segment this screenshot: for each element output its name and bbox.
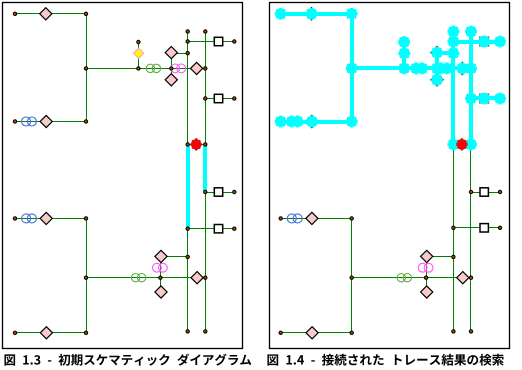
node P2 traced red marker left [448,139,460,151]
wire P1 net-top row1 horizontal [15,13,87,15]
component P2 terminal square 1 [480,37,488,45]
wire P2 main horizontal bus lower [352,277,471,279]
node P2 traced green coil a [410,63,422,75]
node P2 traced yellow node [398,47,410,59]
wire P2 vertical trunk x86 lower [351,219,353,333]
component P1 green coil pair upper bus [146,64,160,72]
component P1 blue coil pair upper [22,117,37,126]
wire P2 row with blue inductor lower [281,218,352,220]
component P2 yellow diamond node [399,48,409,58]
node P1 column B bottom endpoint [204,330,207,333]
component P2 green coil pair lower bus [397,274,411,282]
component P2 diamond blue row lower [306,212,318,224]
node P2 traced yellow stub junction [398,63,410,75]
wire P2 highlighted trace terminal row1 [453,40,500,44]
wire P2 row with blue inductor upper [281,121,352,123]
node P2 column B top endpoint [469,30,472,33]
node P2 traced terminal row2 junction [465,93,477,105]
node P2 traced blue coil a [286,116,298,128]
wire P2 highlighted trace trunk [350,14,354,122]
node P2 traced cluster1 upper diamond [431,47,443,59]
node P2 column A bottom endpoint [452,330,455,333]
node P2 column B bottom endpoint [469,330,472,333]
wire P2 bottom row horizontal [281,332,352,334]
panel 2 border [270,3,510,349]
component P1 terminal square 1 [214,37,222,45]
node P2 traced diamond upper bus [456,63,468,75]
component P1 blue coil pair lower [22,214,37,223]
component P2 diamond cluster2 upper [421,250,433,262]
wire P1 highlighted trace column B [203,146,207,192]
node P2 endpoint blue row lower [279,217,282,220]
junction P2 terminal row4 / column A [452,226,455,229]
wire P2 cluster1 branch to column A [437,53,454,55]
junction P1 top row corner [84,12,87,15]
component P1 diamond cluster2 upper [155,250,167,262]
node P2 traced cluster1 junction [431,63,443,75]
wire P2 column B vertical [470,32,472,332]
node P2 terminal row4 endpoint [498,226,501,229]
wire P1 red-marker cross link [188,144,206,146]
node P2 endpoint top row left [279,12,282,15]
wire P1 column B vertical [205,32,207,332]
junction P1 cluster1 stub / bus [170,67,173,70]
component P2 diamond on upper bus [456,62,468,74]
junction P1 terminal row1 / column A [186,40,189,43]
component P2 diamond blue row upper [306,115,318,127]
node P2 traced corner top row [346,8,358,20]
wire P1 row with blue inductor upper [15,121,87,123]
wire P1 terminal row 2 [206,98,235,100]
junction P2 lower bus end / column B [469,276,472,279]
node P1 current-location red marker [191,139,202,150]
wire P1 cluster1 vertical stub [171,53,173,80]
junction P2 trunk / lower bus [350,276,353,279]
node P2 traced green coil b [416,63,428,75]
component P2 diamond on lower bus [457,272,469,284]
node P1 terminal row1 endpoint [233,40,236,43]
node P1 terminal row4 endpoint [233,227,236,230]
component P1 diamond cluster1 upper [165,47,177,59]
component P1 yellow diamond node [134,48,144,58]
component P2 diamond pin top row [305,8,317,20]
junction P2 terminal row1 / column A [452,40,455,43]
wire P2 main horizontal bus upper [352,68,471,70]
component P1 diamond bottom row [40,327,52,339]
wire P2 highlighted trace cluster1 stub [435,53,439,80]
junction P1 cluster1 branch / column A [186,52,189,55]
component P1 diamond blue row upper [40,115,52,127]
caption figure 1.3 label [4,354,251,366]
wire P2 highlighted trace row1 [281,12,352,16]
component P1 terminal square 2 [214,94,222,102]
wire P2 terminal row 2 [471,98,501,100]
wire P2 highlighted trace yellow stub [402,42,406,68]
junction P2 terminal row2 / column B [469,97,472,100]
junction P2 blue row upper corner [350,120,353,123]
node P2 traced terminal row1 square [478,36,490,48]
component P2 diamond cluster1 upper [431,47,443,59]
wire P2 terminal row 3 [471,192,501,194]
junction P2 bottom row corner [350,331,353,334]
component P1 diamond pin top row [40,8,52,20]
wire P1 row with blue inductor lower [15,218,87,220]
node P1 column B top endpoint [204,30,207,33]
node P1 endpoint bottom row [13,331,16,334]
junction P1 terminal row2 / column B [204,97,207,100]
node P2 traced terminal row2 square [478,93,490,105]
component P1 terminal square 3 [214,188,222,196]
junction P1 cluster2 stub / bus [159,276,162,279]
wire P2 highlighted trace column A upper [451,32,455,144]
wire P2 column A vertical [453,32,455,332]
wire P2 cluster2 vertical stub [426,257,428,293]
junction P2 terminal row3 / column B [469,190,472,193]
wire P2 highlighted trace column B upper [469,32,473,144]
node P2 traced magenta coil a [435,63,447,75]
junction P2 cluster1 branch / column A [452,52,455,55]
wire P2 highlighted trace cluster1 branch [437,51,453,55]
node P2 terminal row1 endpoint [498,40,501,43]
node P2 traced upper bus end [465,63,477,75]
node P2 traced red marker right [465,139,477,151]
component P1 diamond on lower bus [191,272,203,284]
node P2 traced corner blue row [346,116,358,128]
wire P2 net-top row1 horizontal [281,13,352,15]
wire P2 red-marker cross link [454,144,471,146]
node P1 endpoint blue row upper [13,120,16,123]
component P1 diamond cluster1 lower [165,74,177,86]
wire P2 stub to yellow node [404,43,406,69]
junction P1 red marker left [186,143,189,146]
component P2 magenta coil pair upper bus [437,64,452,73]
wire P2 cluster1 vertical stub [436,53,438,80]
node P2 traced column A top [448,26,460,38]
node P2 terminal row3 endpoint [498,190,501,193]
junction P1 trunk / lower bus [84,276,87,279]
node P1 endpoint yellow stub [137,40,140,43]
node P1 column A top endpoint [186,30,189,33]
component P2 diamond bottom row [306,327,318,339]
node P2 traced cluster1 lower diamond [431,74,443,86]
junction P2 trunk / upper bus [350,67,353,70]
wire P1 vertical trunk x86 upper [86,14,88,122]
wire P2 highlighted trace upper bus [352,66,471,70]
node P2 column A top endpoint [452,30,455,33]
node P2 traced magenta coil b [441,63,453,75]
wire P1 cluster1 branch to column A [172,53,188,55]
node P2 traced blue coil b [292,116,304,128]
component P2 terminal square 4 [480,224,488,232]
junction P2 top row corner [350,12,353,15]
component P1 magenta coil pair upper bus [171,64,186,73]
junction P2 upper bus end / column B [469,67,472,70]
component P1 green coil pair lower bus [131,274,145,282]
junction P1 blue row lower corner [84,217,87,220]
node P2 terminal row2 endpoint [498,97,501,100]
component P1 diamond on upper bus [191,62,203,74]
node P2 traced yellow stub endpoint [398,36,410,48]
wire P1 main horizontal bus lower [87,277,206,279]
wire P2 terminal row 4 [454,227,501,229]
component P2 magenta coil pair cluster2 [418,263,433,272]
junction P1 red marker right [204,143,207,146]
component P2 diamond cluster2 lower [421,286,433,298]
node P2 traced terminal row2 end [494,93,506,105]
junction P1 bottom row corner [84,331,87,334]
wire P1 terminal row 3 [206,192,235,194]
component P2 green coil pair upper bus [412,64,426,72]
component P2 terminal square 3 [480,188,488,196]
node P1 terminal row3 endpoint [233,190,236,193]
junction P1 trunk / upper bus [84,67,87,70]
junction P2 red marker right [469,143,472,146]
node P2 endpoint bottom row [279,331,282,334]
junction P2 yellow stub / bus [402,67,405,70]
junction P2 blue row lower corner [350,217,353,220]
component P2 current-location diamond tips [460,138,463,151]
node P2 traced endpoint blue row [275,116,287,128]
wire P1 cluster2 vertical stub [160,257,162,293]
component P2 diamond cluster1 lower [431,74,443,86]
wire P1 vertical trunk x86 lower [86,219,88,333]
junction P2 cluster1 stub / bus [435,67,438,70]
junction P2 cluster2 stub / bus [424,276,427,279]
wire P1 cluster2 branch to column A [161,256,188,258]
junction P2 red marker left [452,143,455,146]
junction P1 lower bus end / column B [204,276,207,279]
component P1 terminal square 4 [214,225,222,233]
component P2 terminal square 2 [480,94,488,102]
wire P1 highlighted trace column A [186,146,190,229]
component P1 magenta coil pair cluster2 [153,263,168,272]
node P2 traced endpoint top row [275,8,287,20]
node P1 column A bottom endpoint [186,330,189,333]
wire P1 main horizontal bus upper [87,68,206,70]
node P2 endpoint yellow stub [402,40,405,43]
junction P1 yellow stub / bus [137,67,140,70]
junction P1 upper bus end / column B [204,67,207,70]
node P2 traced trunk/upper bus [346,63,358,75]
wire P2 vertical trunk x86 upper [351,14,353,122]
node P1 endpoint top row left [13,12,16,15]
junction P2 cluster2 branch / column A [452,255,455,258]
junction P1 terminal row3 / column B [204,190,207,193]
node P2 traced diamond top row [306,8,318,20]
component P2 blue coil pair lower [287,214,302,223]
wire P1 terminal row 4 [188,228,235,230]
node P2 current-location red marker [456,139,467,150]
node P2 traced diamond blue row [306,116,318,128]
node P2 endpoint blue row upper [279,120,282,123]
node P2 traced column B top [465,26,477,38]
node P1 terminal row2 endpoint [233,97,236,100]
wire P1 bottom row horizontal [15,332,87,334]
wire P1 column A vertical [187,32,189,332]
wire P2 cluster2 branch to column A [427,256,454,258]
wire P1 stub to yellow node [138,43,140,69]
caption figure 1.4 label [267,354,503,366]
junction P1 terminal row4 / column A [186,227,189,230]
wire P2 highlighted trace terminal row2 [471,96,500,100]
component P1 current-location diamond tips [195,138,198,151]
node P2 traced cluster1 branch junction [448,47,460,59]
component P2 blue coil pair upper [287,117,302,126]
node P1 endpoint blue row lower [13,217,16,220]
junction P1 blue row upper corner [84,120,87,123]
wire P2 terminal row 1 [454,41,501,43]
junction P1 cluster2 branch / column A [186,255,189,258]
wire P1 terminal row 1 [188,41,235,43]
node P2 traced terminal row1 end [494,36,506,48]
node P2 traced terminal row1 junction [448,36,460,48]
wire P2 highlighted trace blue row [281,120,352,124]
component P1 diamond cluster2 lower [155,286,167,298]
component P1 diamond blue row lower [40,212,52,224]
panel 1 border [3,3,243,349]
